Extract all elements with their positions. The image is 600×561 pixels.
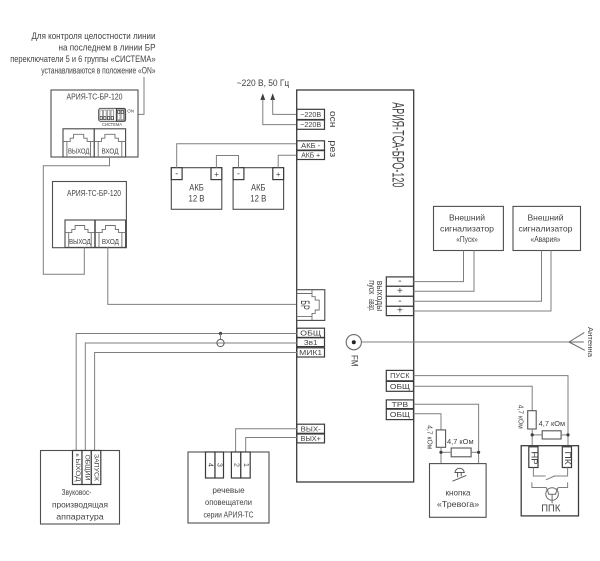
- wire авар - to signal device: [414, 251, 542, 302]
- terminal выходы пуск -: [386, 276, 413, 287]
- svg-text:ПК: ПК: [563, 451, 572, 465]
- terminal ВЫХ+: [297, 434, 325, 443]
- repeater BR2 АРИЯ-ТС-БР-120: [53, 182, 127, 248]
- push button symbol SB1: [453, 468, 467, 481]
- svg-text:серии АРИЯ-ТС: серии АРИЯ-ТС: [204, 509, 254, 519]
- svg-text:кнопка: кнопка: [446, 487, 471, 497]
- junction dot right ППК: [566, 433, 569, 436]
- svg-text:ОБЩ: ОБЩ: [390, 410, 410, 419]
- button Тревога box: [430, 464, 487, 518]
- terminal АКБ -: [297, 141, 325, 150]
- unit ППК: [521, 446, 578, 516]
- svg-text:«Авария»: «Авария»: [531, 234, 561, 244]
- wire авар + to signal device: [414, 251, 552, 312]
- wire R1 to НР: [531, 429, 533, 446]
- terminal ВЫХ-: [297, 424, 325, 433]
- box speech annunciators АРИЯ-ТС: [188, 452, 269, 523]
- svg-text:ВЫХОД: ВЫХОД: [68, 149, 90, 156]
- wire GB1 plus to GB2 minus: [216, 156, 238, 168]
- signal device box Авария: [513, 206, 581, 250]
- terminal выходы пуск +: [386, 286, 413, 297]
- terminal МИК1: [297, 348, 325, 357]
- terminal выходы авар +: [386, 306, 413, 317]
- svg-text:3: 3: [215, 463, 222, 467]
- connector FM: [346, 335, 361, 367]
- wire R2 right to junction: [561, 434, 568, 436]
- svg-text:+: +: [276, 170, 281, 179]
- svg-text:Внешний: Внешний: [528, 213, 564, 223]
- svg-text:4,7 кОм: 4,7 кОм: [426, 425, 435, 449]
- svg-text:+: +: [397, 306, 403, 317]
- svg-text:АРИЯ-ТС-БР-120: АРИЯ-ТС-БР-120: [67, 189, 121, 198]
- svg-text:FM: FM: [350, 355, 360, 367]
- jack ВЫХОД BR1: [63, 129, 94, 157]
- svg-text:~220В: ~220В: [300, 120, 321, 129]
- mains arrow 1: [260, 93, 265, 100]
- svg-text:4: 4: [206, 463, 213, 467]
- wire ОБЩ to sound equipment: [76, 334, 297, 451]
- jack БР U1: [297, 290, 325, 321]
- terminal АКБ +: [297, 151, 325, 160]
- svg-text:производящая: производящая: [52, 499, 108, 509]
- resistor R1 4,7 кОм vertical: [517, 405, 537, 429]
- terminal ОБЩ right2: [386, 409, 413, 419]
- svg-text:~220 В, 50 Гц: ~220 В, 50 Гц: [237, 78, 290, 88]
- svg-text:пуск: пуск: [367, 280, 377, 294]
- wire BR1 ВХОД to BR2 ВЫХОД: [43, 157, 109, 274]
- svg-text:аппаратура: аппаратура: [56, 511, 104, 521]
- wire BR2 ВХОД to jack БР: [108, 247, 297, 304]
- svg-text:1: 1: [242, 463, 249, 467]
- svg-text:~220В: ~220В: [300, 110, 321, 119]
- terminal ~220В осн 2: [297, 120, 325, 129]
- terminal ОБЩ: [297, 328, 325, 337]
- svg-text:сигнализатор: сигнализатор: [519, 223, 573, 233]
- terminal ПУСК: [386, 370, 413, 380]
- svg-text:12 В: 12 В: [189, 194, 205, 204]
- unit U1 АРИЯ-ТСА-БРО-120: [297, 90, 414, 482]
- jack ВХОД BR2: [95, 220, 125, 247]
- resistor R3 4,7 кОм vertical: [426, 425, 446, 449]
- svg-text:2: 2: [232, 463, 239, 467]
- junction dot left button: [439, 451, 442, 454]
- svg-text:Зв1: Зв1: [304, 338, 318, 347]
- svg-text:ВЫХОД: ВЫХОД: [69, 239, 91, 246]
- DIP switch СИСТЕМА: [99, 108, 135, 127]
- mains arrow 2: [270, 93, 275, 100]
- terminal выходы авар -: [386, 296, 413, 307]
- battery GB2 АКБ 12 В: [233, 168, 284, 210]
- shield junction node: [217, 332, 224, 347]
- svg-text:устанавливаются в положение «O: устанавливаются в положение «ON»: [41, 66, 155, 76]
- svg-text:осн: осн: [327, 111, 338, 128]
- wire ВЫХ- to annunciators: [236, 429, 297, 452]
- svg-text:ОБЩ: ОБЩ: [300, 328, 321, 337]
- junction dot right button: [477, 451, 480, 454]
- svg-text:ПУСК: ПУСК: [390, 371, 410, 380]
- svg-text:ВЫХ+: ВЫХ+: [300, 434, 321, 443]
- wire Зв1 to sound equipment: [85, 343, 297, 451]
- wire FM to antenna: [361, 341, 569, 343]
- svg-text:рез: рез: [327, 140, 338, 157]
- wire mains to ~220В lower: [263, 100, 297, 125]
- svg-text:ППК: ППК: [541, 503, 561, 515]
- wire ТРВ to button: [414, 404, 479, 479]
- terminal ТРВ: [386, 400, 413, 409]
- wire МИК1 to sound equipment: [95, 353, 297, 451]
- relay contact in ППК: [533, 468, 567, 480]
- svg-text:ТРВ: ТРВ: [392, 400, 409, 409]
- wire АКБ- to GB1 minus: [177, 144, 297, 168]
- svg-text:АКБ +: АКБ +: [301, 151, 321, 160]
- repeater BR1 АРИЯ-ТС-БР-120: [51, 90, 138, 157]
- svg-text:оповещатели: оповещатели: [205, 497, 252, 507]
- resistor R4 4,7 кОм horizontal: [447, 437, 474, 457]
- svg-text:АКБ: АКБ: [251, 183, 266, 193]
- svg-text:сигнализатор: сигнализатор: [440, 223, 494, 233]
- wire ПУСК to ППК: [414, 376, 569, 446]
- svg-text:Для контроля целостности линии: Для контроля целостности линии: [32, 31, 156, 41]
- terminal ОБЩ right1: [386, 381, 413, 391]
- svg-text:АРИЯ-ТСА-БРО-120: АРИЯ-ТСА-БРО-120: [388, 102, 407, 187]
- antenna: [569, 327, 593, 357]
- svg-text:в ЫХОД: в ЫХОД: [74, 454, 80, 482]
- svg-text:-: -: [237, 169, 240, 179]
- svg-text:«Тревога»: «Тревога»: [437, 499, 480, 509]
- wire mains to ~220В upper: [273, 100, 297, 115]
- svg-text:БР: БР: [298, 300, 310, 310]
- resistor R2 4,7 кОм horizontal: [539, 419, 566, 439]
- terminal Зв1: [297, 338, 325, 347]
- battery GB1 АКБ 12 В: [171, 168, 222, 210]
- svg-text:+: +: [214, 170, 219, 179]
- wire GB2 plus to АКБ+: [278, 155, 297, 168]
- jack ВХОД BR1: [94, 129, 125, 157]
- wire R3 to button contact: [441, 447, 453, 480]
- wire ОБЩ to resistor R3: [414, 414, 442, 430]
- wire ОБЩ to resistor R1: [414, 386, 533, 410]
- svg-text:4,7 кОм: 4,7 кОм: [539, 419, 566, 428]
- svg-text:12 В: 12 В: [250, 194, 266, 204]
- svg-text:ЗАПУСК: ЗАПУСК: [93, 454, 99, 482]
- wire R4 right to junction: [471, 451, 479, 453]
- svg-text:4,7 кОм: 4,7 кОм: [447, 437, 474, 446]
- wire ВЫХ+ to annunciators: [246, 438, 297, 453]
- wire junction to R2 left: [532, 434, 542, 436]
- wire пуск - to signal device: [414, 251, 464, 282]
- svg-text:ОБЩ: ОБЩ: [390, 382, 410, 391]
- svg-text:переключатели 5 и 6 группы «СИ: переключатели 5 и 6 группы «СИСТЕМА»: [10, 54, 155, 64]
- annotation pointer wire: [126, 77, 144, 114]
- transistor output in ППК: [532, 482, 568, 503]
- jack ВЫХОД BR2: [65, 220, 95, 247]
- svg-text:АКБ -: АКБ -: [301, 141, 321, 150]
- wire junction to R4 left: [441, 451, 451, 453]
- svg-text:авар.: авар.: [367, 299, 377, 312]
- svg-text:ВХОД: ВХОД: [102, 239, 119, 246]
- svg-text:ОБЩИЙ: ОБЩИЙ: [83, 455, 91, 481]
- terminal ~220В осн 1: [297, 109, 325, 119]
- wire пуск + to signal device: [414, 251, 475, 292]
- svg-text:«Пуск»: «Пуск»: [456, 234, 478, 244]
- svg-text:ВЫХ-: ВЫХ-: [301, 424, 322, 433]
- svg-text:НР: НР: [530, 451, 539, 464]
- svg-text:Антенна: Антенна: [586, 327, 593, 357]
- svg-text:АКБ: АКБ: [189, 183, 204, 193]
- svg-text:Звуковос-: Звуковос-: [62, 487, 92, 497]
- svg-text:ВХОД: ВХОД: [102, 149, 119, 156]
- svg-text:на последнем в линии БР: на последнем в линии БР: [59, 42, 156, 52]
- svg-text:МИК1: МИК1: [299, 348, 322, 357]
- junction dot left ППК: [531, 433, 534, 436]
- svg-text:-: -: [175, 169, 178, 179]
- svg-text:Внешний: Внешний: [449, 213, 485, 223]
- note annotation about БР line control: [10, 31, 155, 76]
- svg-text:ON: ON: [127, 108, 134, 113]
- svg-text:4,7 кОм: 4,7 кОм: [517, 405, 526, 429]
- box sound reproducing equipment: [41, 451, 120, 525]
- svg-text:АРИЯ-ТС-БР-120: АРИЯ-ТС-БР-120: [67, 92, 123, 101]
- svg-text:СИСТЕМА: СИСТЕМА: [102, 122, 122, 127]
- signal device box Пуск: [434, 206, 504, 250]
- svg-text:речевые: речевые: [212, 485, 245, 495]
